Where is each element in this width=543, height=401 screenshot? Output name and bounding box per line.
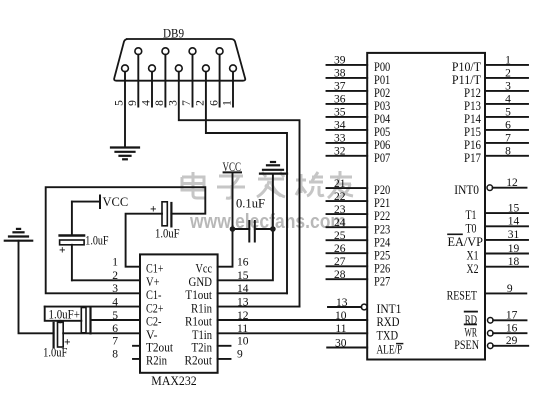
svg-text:ALE/P: ALE/P [377,342,403,357]
svg-text:12: 12 [237,310,249,322]
svg-text:13: 13 [237,296,249,308]
svg-text:+: + [64,337,71,349]
svg-text:INT0: INT0 [454,182,479,197]
svg-text:35: 35 [334,107,346,119]
svg-text:30: 30 [335,337,347,349]
svg-text:R2in: R2in [146,353,167,368]
svg-text:7: 7 [505,133,511,145]
svg-text:3: 3 [112,283,118,295]
svg-text:1: 1 [505,55,511,67]
svg-text:16: 16 [506,323,518,335]
svg-text:0.1uF: 0.1uF [236,195,265,210]
svg-text:17: 17 [506,310,518,322]
svg-text:P17: P17 [464,150,481,165]
svg-text:TXD: TXD [377,327,399,342]
svg-text:2: 2 [112,270,118,282]
svg-text:6: 6 [208,100,220,106]
svg-text:29: 29 [506,335,518,347]
svg-text:8: 8 [154,100,166,106]
svg-text:PSEN: PSEN [454,337,479,352]
svg-text:5: 5 [505,107,511,119]
svg-text:VCC: VCC [223,159,242,174]
svg-text:1.0uF+: 1.0uF+ [49,306,80,321]
svg-text:5: 5 [112,310,118,322]
svg-text:22: 22 [334,191,346,203]
svg-text:7: 7 [112,336,118,348]
svg-text:10: 10 [237,336,249,348]
svg-text:9: 9 [127,100,139,106]
svg-text:6: 6 [505,120,511,132]
svg-text:28: 28 [334,269,346,281]
svg-text:4: 4 [505,94,511,106]
svg-text:2: 2 [505,68,511,80]
svg-text:38: 38 [334,68,346,80]
svg-text:10: 10 [335,310,347,322]
svg-text:18: 18 [508,256,520,268]
svg-text:7: 7 [181,100,193,106]
svg-text:1.0uF: 1.0uF [85,233,108,248]
svg-text:32: 32 [334,146,346,158]
svg-text:R2out: R2out [185,353,213,368]
svg-text:8: 8 [112,349,118,361]
svg-text:34: 34 [334,120,346,132]
svg-text:9: 9 [237,349,243,361]
svg-text:3: 3 [168,100,180,106]
svg-text:36: 36 [334,94,346,106]
svg-text:15: 15 [508,202,520,214]
svg-text:21: 21 [334,178,346,190]
svg-text:11: 11 [335,323,346,335]
svg-text:RESET: RESET [447,288,477,303]
svg-text:P07: P07 [374,150,391,165]
svg-text:1.0uF: 1.0uF [155,226,180,241]
svg-text:31: 31 [508,229,520,241]
svg-text:25: 25 [334,230,346,242]
svg-text:1: 1 [112,257,118,269]
svg-text:37: 37 [334,81,346,93]
svg-text:14: 14 [508,216,520,228]
svg-text:23: 23 [334,204,346,216]
svg-text:14: 14 [237,283,249,295]
svg-text:P27: P27 [374,273,391,288]
svg-text:33: 33 [334,133,346,145]
svg-text:12: 12 [506,177,518,189]
svg-text:4: 4 [141,100,153,106]
svg-text:11: 11 [237,323,248,335]
svg-text:MAX232: MAX232 [151,373,196,388]
svg-text:19: 19 [508,243,520,255]
svg-text:4: 4 [112,296,118,308]
svg-text:1: 1 [222,100,234,106]
svg-text:3: 3 [505,81,511,93]
svg-text:5: 5 [113,100,125,106]
svg-text:6: 6 [112,323,118,335]
svg-text:+: + [59,245,66,257]
svg-text:27: 27 [334,256,346,268]
svg-text:24: 24 [334,217,346,229]
svg-text:8: 8 [505,146,511,158]
svg-text:2: 2 [195,100,207,106]
svg-text:DB9: DB9 [163,26,184,41]
svg-text:39: 39 [334,55,346,67]
svg-text:15: 15 [237,270,249,282]
svg-text:9: 9 [507,283,513,295]
svg-text:13: 13 [336,297,348,309]
svg-text:16: 16 [237,257,249,269]
svg-text:+: + [150,204,157,216]
svg-text:VCC: VCC [103,194,129,209]
svg-text:26: 26 [334,243,346,255]
svg-text:X2: X2 [467,261,479,276]
